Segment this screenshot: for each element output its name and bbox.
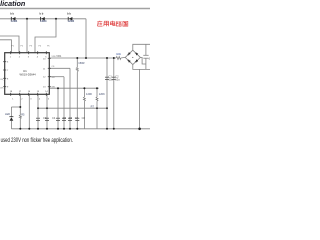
svg-text:U1: U1 [23,69,27,73]
svg-text:GN: GN [52,77,56,79]
svg-text:150R: 150R [78,61,84,65]
svg-text:P4: P4 [39,45,42,47]
svg-text:C7: C7 [75,116,79,120]
svg-text:2: 2 [19,57,21,59]
svg-text:C3: C3 [43,116,47,120]
svg-text:L2D4: L2D4 [40,19,47,23]
svg-text:C4: C4 [52,116,56,120]
svg-text:3: 3 [30,99,32,101]
svg-text:LED: LED [5,112,10,116]
svg-text:15: 15 [37,91,40,93]
svg-text:CS: CS [52,66,55,68]
svg-text:P5: P5 [47,45,50,47]
svg-text:7: 7 [7,70,9,72]
svg-text:5: 5 [45,57,47,59]
svg-text:C5: C5 [63,116,67,120]
svg-text:12: 12 [43,77,46,79]
svg-text:6: 6 [7,62,9,64]
svg-text:R5: R5 [21,112,25,116]
svg-text:CH_N: CH_N [0,79,6,81]
svg-text:3: 3 [28,57,30,59]
svg-text:4: 4 [37,57,39,59]
svg-text:b b: b b [67,11,71,15]
svg-text:CH_N: CH_N [0,87,6,89]
svg-text:b b: b b [40,11,44,15]
svg-text:P2: P2 [21,45,24,47]
svg-text:8: 8 [7,78,9,80]
svg-text:10u: 10u [115,78,120,82]
svg-text:11: 11 [43,68,46,70]
svg-text:18: 18 [10,91,13,93]
svg-text:9: 9 [7,87,9,89]
svg-text:P3: P3 [30,45,33,47]
svg-text:1: 1 [12,99,14,101]
svg-text:10Ω: 10Ω [116,53,121,56]
svg-text:P1: P1 [12,45,15,47]
svg-text:2: 2 [21,99,23,101]
svg-text:4: 4 [39,99,41,101]
svg-text:13: 13 [43,87,46,89]
svg-text:120K: 120K [99,92,105,96]
svg-text:b b: b b [10,11,14,15]
svg-text:(F: (F [149,56,150,60]
svg-text:14: 14 [45,91,48,93]
svg-text:1: 1 [10,57,12,59]
svg-text:5: 5 [48,99,50,101]
svg-text:C8: C8 [82,116,86,120]
svg-text:L2D4: L2D4 [11,19,18,23]
svg-text:C6: C6 [69,116,73,120]
svg-text:120K: 120K [86,92,92,96]
svg-text:VDD: VDD [52,56,57,58]
svg-text:10: 10 [43,58,46,60]
svg-text:17: 17 [19,91,22,93]
svg-text:VR1: VR1 [56,54,62,58]
svg-text:R7: R7 [91,104,95,108]
svg-text:WS19-D3644: WS19-D3644 [20,73,37,77]
svg-text:10u: 10u [109,78,114,82]
svg-text:SW: SW [52,87,55,89]
svg-text:L2D4: L2D4 [68,19,75,23]
svg-text:16: 16 [28,91,31,93]
